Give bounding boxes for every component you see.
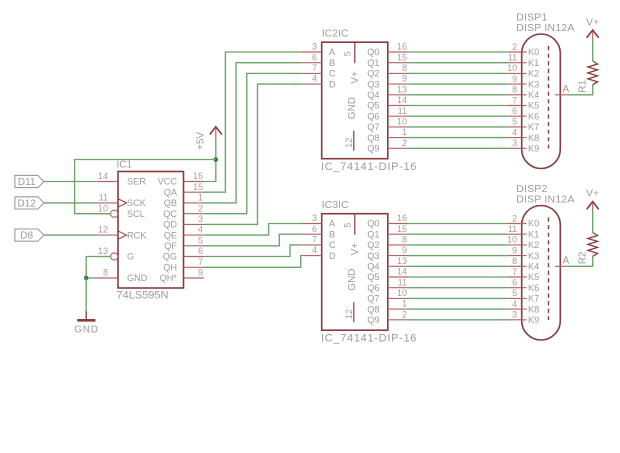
svg-text:DISP IN12A: DISP IN12A (516, 22, 574, 34)
wire IC1 QH to IC3 D (204, 256, 301, 268)
svg-text:IC1: IC1 (117, 160, 133, 171)
svg-text:G: G (127, 252, 134, 262)
svg-text:2: 2 (402, 309, 407, 319)
svg-text:Q0: Q0 (367, 47, 379, 57)
U3 pin 2 Q9 (367, 309, 408, 325)
svg-text:Q9: Q9 (367, 315, 379, 325)
svg-text:16: 16 (397, 42, 407, 52)
svg-text:2: 2 (198, 203, 203, 213)
U3 pin 5 V+ (343, 214, 361, 256)
svg-text:5: 5 (343, 223, 353, 228)
wire resistor to V+ R2 (592, 211, 594, 233)
svg-text:8: 8 (402, 63, 407, 73)
U2 pin 10 Q7 (367, 117, 408, 133)
IC1 pin 3 QD (163, 214, 204, 230)
IC1 pin 16 VCC (158, 171, 204, 187)
svg-text:6: 6 (312, 224, 317, 234)
U2 pin 15 Q1 (367, 52, 408, 68)
nixie DISP2 label DISP2 (516, 183, 547, 195)
IC U1 value 74LS595N (117, 290, 169, 302)
svg-text:7: 7 (312, 235, 317, 245)
svg-text:SER: SER (127, 177, 146, 187)
wire IC1 QE to IC3 A (204, 224, 301, 236)
DISP2 pin 2 K0 (508, 213, 539, 228)
svg-text:QD: QD (163, 220, 177, 230)
svg-text:K7: K7 (528, 122, 539, 132)
U2 pin 9 Q3 (367, 74, 408, 90)
svg-text:15: 15 (397, 224, 407, 234)
svg-text:IC3IC: IC3IC (322, 199, 349, 211)
U3 pin 11 Q6 (367, 277, 408, 293)
nixie DISP2 anode grid dashed line (548, 218, 550, 321)
U3 pin 8 Q2 (367, 235, 408, 251)
svg-text:C: C (329, 240, 336, 250)
U3 pin 12 GND (344, 268, 358, 322)
svg-text:B: B (329, 229, 335, 239)
svg-text:10: 10 (507, 235, 517, 245)
svg-text:VCC: VCC (158, 177, 178, 187)
svg-text:9: 9 (402, 74, 407, 84)
svg-text:9: 9 (198, 268, 203, 278)
svg-text:Q2: Q2 (367, 69, 379, 79)
IC1 pin 12 RCK (97, 225, 147, 241)
svg-text:13: 13 (98, 246, 108, 256)
wire IC2 Q0 to DISP1 K0 (408, 51, 508, 53)
U2 pin 13 Q4 (367, 84, 408, 100)
wire IC2 Q9 to DISP1 K9 (408, 147, 508, 149)
wire IC3 Q7 to DISP2 K7 (408, 297, 508, 299)
svg-text:6: 6 (198, 246, 203, 256)
U2 pin 2 Q9 (367, 138, 408, 154)
svg-text:4: 4 (512, 299, 517, 309)
svg-text:8: 8 (402, 235, 407, 245)
svg-text:GND: GND (127, 273, 148, 283)
wire resistor to V+ R1 (592, 39, 594, 61)
U3 pin 3 A (301, 213, 336, 229)
V+ label R1 (586, 17, 599, 29)
U2 pin 5 V+ (343, 42, 361, 83)
svg-text:11: 11 (99, 193, 108, 203)
svg-text:13: 13 (397, 84, 407, 94)
svg-text:QB: QB (164, 198, 177, 208)
svg-text:4: 4 (198, 225, 203, 235)
svg-text:QH*: QH* (160, 273, 178, 283)
svg-text:D: D (329, 79, 336, 89)
svg-text:K4: K4 (528, 262, 539, 272)
svg-text:2: 2 (402, 138, 407, 148)
wire IC1 QD to IC2 D (204, 84, 301, 224)
svg-text:A: A (563, 84, 570, 95)
svg-text:8: 8 (103, 268, 108, 278)
svg-text:GND: GND (74, 324, 99, 335)
V+ symbol arrow R2 (587, 202, 599, 210)
svg-text:K6: K6 (528, 283, 539, 293)
svg-text:14: 14 (98, 171, 108, 181)
DISP1 pin 6 K6 (508, 106, 539, 121)
svg-text:Q2: Q2 (367, 240, 379, 250)
svg-text:Q7: Q7 (367, 122, 379, 132)
svg-text:15: 15 (397, 52, 407, 62)
IC1 pin 7 QH (163, 257, 204, 273)
wire D12 to IC1 SCK (44, 202, 98, 204)
svg-text:2: 2 (512, 213, 517, 223)
DISP2 pin 11 K1 (508, 224, 539, 239)
wire IC2 Q8 to DISP1 K8 (408, 137, 508, 139)
svg-text:5: 5 (512, 117, 517, 127)
svg-text:Q8: Q8 (367, 133, 379, 143)
svg-text:Q9: Q9 (367, 144, 379, 154)
U3 pin 14 Q5 (367, 267, 408, 283)
svg-text:IC_74141-DIP-16: IC_74141-DIP-16 (321, 161, 417, 173)
DISP2 pin A anode (555, 255, 570, 266)
resistor R2 (588, 233, 598, 257)
svg-text:5: 5 (343, 51, 353, 56)
resistor R1 (588, 61, 598, 85)
svg-text:5: 5 (512, 288, 517, 298)
svg-text:10: 10 (397, 117, 407, 127)
svg-text:1: 1 (402, 127, 407, 137)
DISP2 pin 5 K7 (508, 288, 539, 303)
svg-text:K3: K3 (528, 251, 539, 261)
svg-text:K7: K7 (528, 294, 539, 304)
svg-text:Q6: Q6 (367, 111, 379, 121)
ground label GND (74, 324, 99, 335)
svg-text:K2: K2 (528, 69, 539, 79)
svg-text:QA: QA (164, 187, 178, 197)
wire IC2 Q5 to DISP1 K5 (408, 105, 508, 107)
svg-text:Q5: Q5 (367, 101, 379, 111)
wire D8 to IC1 RCK (44, 234, 98, 236)
IC1 pin 15 QA (164, 182, 204, 198)
svg-text:D12: D12 (18, 198, 37, 209)
svg-text:D11: D11 (18, 177, 36, 188)
wire junction down to ground (85, 278, 87, 311)
svg-text:IC2IC: IC2IC (322, 28, 349, 40)
wire IC1 QG to IC3 C (204, 245, 301, 257)
U3 pin 4 D (301, 245, 336, 261)
svg-text:Q4: Q4 (367, 262, 379, 272)
U2 pin 6 B (301, 52, 335, 68)
junction at GND net (84, 276, 89, 281)
IC1 pin 11 SCK (97, 193, 146, 209)
wire IC1 QB to IC2 B (204, 63, 301, 203)
svg-text:3: 3 (198, 214, 203, 224)
wire IC3 Q6 to DISP2 K6 (408, 287, 508, 289)
U2 pin 3 A (301, 42, 336, 58)
svg-text:9: 9 (512, 74, 517, 84)
+5V symbol stem (215, 129, 217, 145)
connector D11 (15, 175, 44, 188)
svg-text:K0: K0 (528, 219, 539, 229)
wire IC1 QA to IC2 A (204, 52, 301, 192)
svg-text:V+: V+ (350, 71, 361, 84)
IC U1 74LS595N body outline (118, 172, 184, 289)
DISP1 pin 11 K1 (508, 53, 539, 68)
svg-text:7: 7 (198, 257, 203, 267)
wire D11 to IC1 SER (44, 181, 98, 183)
wire IC3 Q8 to DISP2 K8 (408, 308, 508, 310)
svg-text:QH: QH (163, 263, 177, 273)
nixie DISP1 label DISP1 (516, 12, 547, 24)
svg-text:13: 13 (397, 256, 407, 266)
svg-text:11: 11 (508, 224, 517, 234)
U3 pin 7 C (301, 235, 336, 251)
DISP1 pin 3 K9 (508, 138, 539, 153)
svg-text:11: 11 (398, 277, 407, 287)
U2 pin 14 Q5 (367, 95, 408, 111)
svg-text:9: 9 (402, 245, 407, 255)
U3 pin 6 B (301, 224, 335, 240)
svg-text:K8: K8 (528, 304, 539, 314)
svg-text:10: 10 (98, 203, 108, 213)
DISP1 pin 9 K3 (508, 74, 539, 89)
V+ symbol stem R1 (592, 32, 594, 40)
svg-text:SCK: SCK (127, 198, 147, 208)
svg-text:14: 14 (397, 267, 407, 277)
svg-text:5: 5 (198, 235, 203, 245)
DISP2 pin 7 K5 (508, 267, 539, 282)
wire IC1 GND pin to junction (86, 277, 97, 279)
V+ symbol arrow R1 (587, 30, 599, 38)
svg-text:QE: QE (164, 230, 177, 240)
svg-text:K5: K5 (528, 101, 539, 111)
wire IC2 Q7 to DISP1 K7 (408, 126, 508, 128)
DISP2 pin 10 K2 (507, 235, 539, 250)
IC U1 label IC1 (117, 160, 133, 171)
svg-text:GND: GND (347, 97, 358, 119)
IC U3 label IC3IC (322, 199, 349, 211)
svg-text:K2: K2 (528, 240, 539, 250)
svg-text:K6: K6 (528, 111, 539, 121)
svg-text:K1: K1 (528, 58, 539, 68)
IC1 pin 10 SCL (97, 203, 144, 219)
svg-text:4: 4 (512, 127, 517, 137)
svg-text:3: 3 (312, 213, 317, 223)
IC U2 label IC2IC (322, 28, 349, 40)
svg-text:RCK: RCK (127, 230, 147, 240)
IC U2 74141 body outline (322, 42, 388, 159)
junction at +5V net (214, 157, 219, 162)
svg-text:K9: K9 (528, 315, 539, 325)
svg-text:Q4: Q4 (367, 90, 379, 100)
svg-text:A: A (563, 255, 570, 266)
nixie DISP1 envelope outline (522, 34, 561, 169)
svg-text:Q3: Q3 (367, 251, 379, 261)
IC1 pin 13 G (97, 246, 134, 262)
svg-text:12: 12 (344, 309, 354, 319)
U2 pin 12 GND (344, 97, 358, 151)
DISP1 pin 4 K8 (508, 127, 539, 142)
svg-text:D: D (329, 251, 336, 261)
wire IC3 Q4 to DISP2 K4 (408, 265, 508, 267)
ground symbol lead (85, 311, 87, 320)
wire IC1 QC to IC2 C (204, 73, 301, 213)
DISP2 pin 4 K8 (508, 299, 539, 314)
U2 pin 11 Q6 (367, 106, 408, 122)
IC1 pin 5 QF (164, 235, 204, 251)
connector D8 (15, 229, 44, 242)
svg-text:K1: K1 (528, 229, 539, 239)
DISP2 pin 6 K6 (508, 278, 539, 293)
svg-text:3: 3 (312, 42, 317, 52)
svg-text:10: 10 (507, 63, 517, 73)
svg-text:Q8: Q8 (367, 304, 379, 314)
DISP2 pin 3 K9 (508, 310, 539, 325)
wire +5V net to SCL (75, 160, 216, 214)
U2 pin 8 Q2 (367, 63, 408, 79)
connector D12 (15, 197, 44, 210)
wire IC2 Q1 to DISP1 K1 (408, 62, 508, 64)
DISP2 pin 9 K3 (508, 245, 539, 260)
DISP1 pin 8 K4 (508, 85, 539, 100)
svg-text:Q3: Q3 (367, 79, 379, 89)
svg-text:IC_74141-DIP-16: IC_74141-DIP-16 (321, 333, 417, 345)
DISP1 pin 2 K0 (508, 42, 539, 57)
svg-text:Q7: Q7 (367, 294, 379, 304)
wire R1 anode to resistor (569, 85, 593, 95)
nixie DISP1 value DISP IN12A (516, 22, 574, 34)
svg-text:K4: K4 (528, 90, 539, 100)
svg-text:C: C (329, 69, 336, 79)
svg-text:4: 4 (312, 74, 317, 84)
wire VCC pin to +5V (204, 144, 216, 182)
resistor label R1 (578, 80, 589, 93)
DISP1 pin A anode (555, 84, 570, 95)
IC1 pin 8 GND (97, 268, 147, 284)
U2 pin 1 Q8 (367, 127, 408, 143)
svg-text:8: 8 (512, 256, 517, 266)
svg-text:K8: K8 (528, 133, 539, 143)
U3 pin 15 Q1 (367, 224, 408, 240)
svg-text:K5: K5 (528, 272, 539, 282)
IC1 pin 6 QG (163, 246, 204, 262)
DISP2 pin 8 K4 (508, 256, 539, 271)
svg-text:V+: V+ (350, 243, 361, 256)
U2 pin 16 Q0 (367, 42, 408, 58)
wire IC3 Q2 to DISP2 K2 (408, 244, 508, 246)
svg-text:K9: K9 (528, 144, 539, 154)
svg-text:A: A (329, 219, 336, 229)
svg-text:Q0: Q0 (367, 219, 379, 229)
U3 pin 13 Q4 (367, 256, 408, 272)
wire IC1 QF to IC3 B (204, 234, 301, 246)
wire IC3 Q5 to DISP2 K5 (408, 276, 508, 278)
svg-text:SCL: SCL (127, 209, 145, 219)
svg-text:3: 3 (512, 310, 517, 320)
svg-text:3: 3 (512, 138, 517, 148)
IC1 pin 9 QH* (160, 268, 204, 284)
IC1 pin 2 QC (163, 203, 204, 219)
svg-text:4: 4 (312, 245, 317, 255)
wire IC2 Q3 to DISP1 K3 (408, 83, 508, 85)
nixie DISP2 envelope outline (522, 206, 561, 341)
wire IC2 Q4 to DISP1 K4 (408, 94, 508, 96)
V+ symbol stem R2 (592, 203, 594, 211)
svg-text:R2: R2 (578, 251, 589, 264)
resistor label R2 (578, 251, 589, 264)
DISP1 pin 5 K7 (508, 117, 539, 132)
svg-text:6: 6 (512, 106, 517, 116)
U2 pin 4 D (301, 74, 336, 90)
nixie DISP1 anode grid dashed line (548, 46, 550, 149)
svg-text:74LS595N: 74LS595N (117, 290, 169, 302)
wire IC3 Q3 to DISP2 K3 (408, 255, 508, 257)
nixie DISP2 value DISP IN12A (516, 194, 574, 206)
svg-text:Q1: Q1 (367, 229, 379, 239)
IC U2 value IC_74141-DIP-16 (321, 161, 417, 173)
svg-text:D8: D8 (20, 231, 33, 242)
wire junction up to G bubble (86, 257, 110, 279)
svg-text:8: 8 (512, 85, 517, 95)
svg-text:7: 7 (312, 63, 317, 73)
svg-text:GND: GND (347, 268, 358, 290)
IC1 pin 4 QE (164, 225, 204, 241)
U3 pin 16 Q0 (367, 213, 408, 229)
wire IC3 Q1 to DISP2 K1 (408, 233, 508, 235)
wire R2 anode to resistor (569, 256, 593, 266)
svg-text:6: 6 (312, 52, 317, 62)
svg-text:10: 10 (397, 288, 407, 298)
svg-text:7: 7 (512, 95, 517, 105)
U2 pin 7 C (301, 63, 336, 79)
svg-text:K3: K3 (528, 79, 539, 89)
svg-text:QG: QG (163, 252, 177, 262)
svg-text:16: 16 (397, 213, 407, 223)
svg-text:V+: V+ (586, 17, 599, 29)
svg-text:QF: QF (164, 241, 177, 251)
wire IC2 Q2 to DISP1 K2 (408, 72, 508, 74)
svg-text:Q6: Q6 (367, 283, 379, 293)
svg-text:QC: QC (163, 209, 177, 219)
svg-text:V+: V+ (586, 188, 599, 200)
svg-text:2: 2 (512, 42, 517, 52)
svg-text:11: 11 (508, 53, 517, 63)
svg-text:12: 12 (98, 225, 108, 235)
DISP1 pin 10 K2 (507, 63, 539, 78)
svg-text:11: 11 (398, 106, 407, 116)
IC1 pin 14 SER (97, 171, 146, 187)
IC U3 value IC_74141-DIP-16 (321, 333, 417, 345)
svg-text:R1: R1 (578, 80, 589, 93)
svg-text:7: 7 (512, 267, 517, 277)
+5V symbol arrow (210, 127, 222, 135)
+5V label (196, 132, 207, 150)
wire IC3 Q9 to DISP2 K9 (408, 319, 508, 321)
svg-text:Q5: Q5 (367, 272, 379, 282)
svg-text:+5V: +5V (196, 132, 207, 150)
svg-text:Q1: Q1 (367, 58, 379, 68)
IC U3 74141 body outline (322, 214, 388, 331)
svg-text:K0: K0 (528, 47, 539, 57)
ground symbol bar (77, 319, 95, 322)
svg-text:B: B (329, 58, 335, 68)
U3 pin 1 Q8 (367, 299, 408, 315)
svg-text:1: 1 (198, 193, 203, 203)
DISP1 pin 7 K5 (508, 95, 539, 110)
svg-text:DISP IN12A: DISP IN12A (516, 194, 574, 206)
U3 pin 10 Q7 (367, 288, 408, 304)
svg-text:16: 16 (193, 171, 203, 181)
wire IC2 Q6 to DISP1 K6 (408, 115, 508, 117)
wire IC3 Q0 to DISP2 K0 (408, 223, 508, 225)
svg-text:6: 6 (512, 278, 517, 288)
IC1 pin 1 QB (164, 193, 204, 209)
svg-text:15: 15 (193, 182, 203, 192)
svg-text:1: 1 (402, 299, 407, 309)
svg-text:14: 14 (397, 95, 407, 105)
svg-text:12: 12 (344, 138, 354, 148)
V+ label R2 (586, 188, 599, 200)
